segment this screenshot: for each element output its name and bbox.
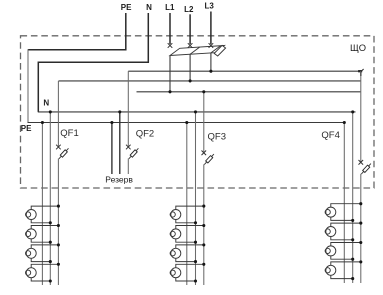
svg-text:L1: L1 [165,3,175,12]
svg-text:ЩО: ЩО [350,42,366,53]
svg-text:QF2: QF2 [136,129,154,140]
svg-text:Резерв: Резерв [105,174,133,184]
svg-text:N: N [43,99,49,108]
svg-text:N: N [146,3,152,12]
svg-text:PE: PE [21,124,32,133]
svg-text:L2: L2 [184,5,194,14]
svg-text:QF3: QF3 [208,131,226,142]
svg-text:L3: L3 [205,1,215,10]
svg-text:QF4: QF4 [321,130,339,141]
svg-text:QF1: QF1 [60,128,78,139]
svg-text:PE: PE [121,3,132,12]
